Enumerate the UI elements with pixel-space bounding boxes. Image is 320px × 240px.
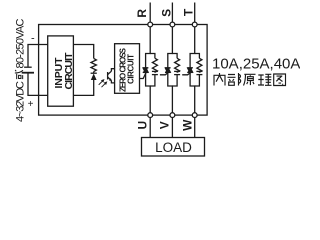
svg-text:LOAD: LOAD [155, 140, 192, 155]
svg-text:CIRCUIT: CIRCUIT [63, 52, 75, 90]
terminal U [148, 113, 153, 118]
terminal R [148, 22, 153, 27]
svg-text:S: S [160, 9, 174, 17]
snubber capacitor C2 [174, 71, 180, 74]
label: zero cross circuit text [118, 47, 135, 92]
phase T branch wiring [190, 27, 195, 68]
svg-text:10A,25A,40A: 10A,25A,40A [212, 55, 300, 72]
wire: terminal R stub [149, 3, 151, 23]
resistor R1 (series LED resistor) [91, 58, 96, 71]
wire: terminal U to load [149, 118, 151, 138]
svg-text:W: W [180, 119, 194, 131]
terminal V [170, 113, 175, 118]
wire: terminal W to load [194, 118, 196, 138]
label: internal schematic caption (CJK) [214, 73, 286, 86]
snubber capacitor C3 [196, 71, 202, 74]
input circuit block U1 [48, 36, 74, 106]
snubber resistor R3 [175, 58, 180, 72]
snubber resistor R4 [197, 58, 202, 72]
glyph: nei [214, 73, 225, 86]
phase S branch wiring [168, 27, 173, 68]
svg-text:U: U [136, 121, 150, 130]
glyph: CJK huo (or) [15, 70, 23, 79]
terminal W [192, 113, 197, 118]
wire: resistor to LED [93, 72, 95, 74]
svg-text:80-250VAC: 80-250VAC [15, 18, 27, 68]
zero cross circuit block U2 [115, 44, 140, 94]
wire: input block to series resistor [73, 45, 93, 59]
label: input voltage rating (rotated) [15, 18, 27, 122]
snubber capacitor C1 [152, 71, 158, 74]
label: input circuit text [53, 52, 75, 90]
glyph: tu [274, 74, 286, 86]
wire: negative input lead [28, 45, 48, 67]
glyph: li [258, 74, 272, 85]
triac T2 [165, 68, 171, 73]
svg-text:R: R [135, 9, 149, 18]
battery B1 [22, 67, 34, 73]
svg-text:CIRCUIT: CIRCUIT [127, 54, 136, 84]
svg-text:+: + [28, 99, 34, 110]
LED D1 (optocoupler emitter) [91, 73, 97, 80]
svg-text:-: - [31, 32, 35, 44]
wire: positive input lead [28, 74, 48, 96]
load box [142, 138, 205, 157]
wire: terminal T stub [194, 3, 196, 23]
wire: terminal V to load [171, 118, 173, 138]
phototransistor Q1 [108, 69, 115, 83]
terminal S [170, 22, 175, 27]
triac T1 [143, 68, 149, 73]
glyph: yuan [244, 74, 256, 85]
svg-text:V: V [158, 121, 172, 129]
wire: LED to positive rail [73, 80, 93, 95]
svg-text:4~32VDC: 4~32VDC [15, 81, 27, 122]
terminal T [192, 22, 197, 27]
gate wire to triac 1 [140, 73, 147, 79]
svg-text:T: T [181, 8, 195, 16]
gate stub to triac 2 [160, 73, 168, 75]
optocoupler light arrows [99, 79, 108, 87]
snubber resistor R2 [152, 58, 157, 72]
gate stub to triac 3 [182, 73, 190, 75]
wire: terminal S stub [171, 3, 173, 23]
triac T3 [187, 68, 193, 73]
enclosure outline (SSR body ring) [39, 25, 208, 116]
glyph: bu [228, 73, 241, 86]
phase R branch wiring [146, 27, 151, 68]
